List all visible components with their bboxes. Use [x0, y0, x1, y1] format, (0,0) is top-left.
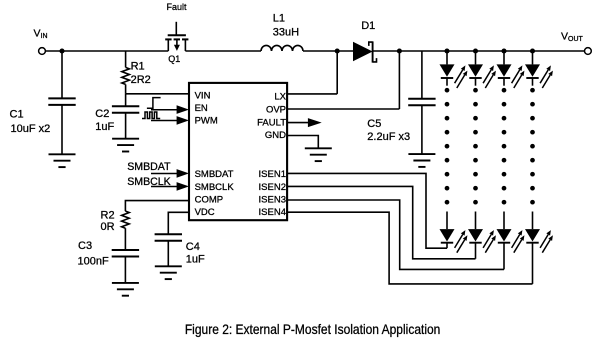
wire Q1 drain to L1 [185, 50, 261, 52]
wire L1 to D1 [303, 50, 353, 52]
wire LED2 anode lead [475, 51, 477, 64]
arrow FAULT output [308, 118, 322, 127]
LED D1a top string 1 [440, 64, 468, 88]
capacitor C1 [48, 98, 75, 105]
op-amp U1 IC box [189, 83, 287, 220]
wire OVP horizontal [287, 108, 399, 110]
wire LED4 bottom anode lead [532, 212, 534, 230]
svg-text:ISEN4: ISEN4 [259, 207, 286, 218]
capacitor C3 [112, 250, 139, 257]
wire LED3 bottom cathode lead [503, 243, 505, 270]
svg-text:2.2uF x3: 2.2uF x3 [367, 131, 410, 143]
node VOUT terminal [585, 48, 592, 55]
wire LED3 bottom anode lead [503, 212, 505, 230]
wire C1 to ground [61, 105, 63, 154]
svg-text:33uH: 33uH [273, 26, 299, 38]
wire LED1 anode lead [446, 51, 448, 64]
capacitor C4 [155, 234, 182, 241]
svg-text:10uF x2: 10uF x2 [11, 123, 51, 135]
wire LED1 bottom anode lead [446, 212, 448, 230]
svg-text:R1: R1 [131, 61, 145, 73]
LED D3b bottom string 3 [497, 229, 525, 253]
node LED string 1 continuation dots [445, 88, 450, 205]
wire C2 top lead [125, 94, 127, 107]
wire VIN [126, 93, 189, 95]
wire D1 to VOUT [373, 50, 585, 52]
svg-text:SMBCLK: SMBCLK [195, 182, 235, 193]
node VIN terminal [39, 48, 46, 55]
LED D4a top string 4 [525, 64, 553, 88]
svg-text:LX: LX [274, 92, 286, 103]
svg-text:0R: 0R [101, 221, 115, 233]
svg-text:FAULT: FAULT [257, 118, 286, 129]
LED D1b bottom string 1 [440, 229, 468, 253]
svg-text:C5: C5 [367, 118, 381, 130]
wire LED4 anode lead [532, 51, 534, 64]
wire LED4 cathode lead [532, 78, 534, 86]
wire LX vertical [336, 51, 338, 94]
wire R1 top lead [125, 51, 127, 67]
resistor R1 [122, 67, 130, 84]
arrow into PWM [177, 116, 189, 125]
wire C2 to ground [125, 113, 127, 139]
ground C1 [49, 154, 76, 167]
wire C4 to ground [167, 241, 169, 267]
svg-text:1uF: 1uF [186, 254, 205, 266]
junction OVP node [397, 48, 402, 53]
capacitor C5 [408, 99, 435, 106]
svg-text:EN: EN [195, 103, 208, 114]
wire OVP vertical [398, 51, 400, 109]
wire LED3 anode lead [503, 51, 505, 64]
wire COMP [125, 201, 189, 212]
svg-text:VIN: VIN [195, 91, 211, 102]
transistor Q1 [165, 22, 188, 51]
wire C1 lead [61, 51, 63, 98]
capacitor C2 [112, 106, 139, 113]
wire R2 to C3 [124, 228, 126, 250]
svg-text:OVP: OVP [266, 104, 286, 115]
wire C5 top lead [421, 51, 423, 99]
svg-text:C1: C1 [10, 109, 24, 121]
wire LED2 cathode lead [475, 78, 477, 86]
ground C2 [112, 139, 139, 152]
svg-text:PWM: PWM [195, 116, 218, 127]
resistor R2 [122, 211, 130, 228]
wire C3 to ground [124, 257, 126, 283]
PWM square waveform [142, 112, 160, 119]
svg-text:GND: GND [265, 130, 286, 141]
junction LED string 4 top [530, 48, 535, 53]
junction LED string 3 top [501, 48, 506, 53]
arrow into EN [177, 105, 189, 114]
svg-text:Fault: Fault [167, 2, 188, 12]
svg-text:D1: D1 [361, 20, 375, 32]
svg-text:ISEN1: ISEN1 [259, 169, 286, 180]
svg-text:Figure 2: External P-Mosfet Is: Figure 2: External P-Mosfet Isolation Ap… [185, 322, 441, 337]
wire ISEN2 [287, 186, 475, 258]
wire SMBCLK [151, 186, 178, 188]
wire VDC [168, 212, 189, 234]
svg-text:1uF: 1uF [95, 121, 114, 133]
junction LED string 1 top [444, 48, 449, 53]
wire ISEN4 [287, 212, 532, 284]
wire ISEN3 [287, 200, 504, 269]
wire LED2 bottom cathode lead [475, 243, 477, 259]
EN step waveform [147, 98, 161, 109]
LED D2b bottom string 2 [468, 229, 496, 253]
ground GND pin [305, 148, 332, 161]
LED D3a top string 3 [497, 64, 525, 88]
node LED string 3 continuation dots [502, 88, 507, 205]
wire LX horizontal [287, 93, 337, 95]
junction LX node [335, 48, 340, 53]
wire LED2 bottom anode lead [475, 212, 477, 230]
wire R1 bottom lead [125, 84, 127, 93]
LED D4b bottom string 4 [525, 229, 553, 253]
svg-text:2R2: 2R2 [131, 74, 151, 86]
inductor L1 [261, 45, 303, 51]
svg-text:ISEN2: ISEN2 [259, 182, 286, 193]
svg-text:L1: L1 [273, 13, 285, 25]
node LED string 4 continuation dots [530, 88, 535, 205]
ground C5 [408, 154, 435, 167]
svg-text:R2: R2 [101, 209, 115, 221]
svg-text:100nF: 100nF [78, 256, 109, 268]
node LED string 2 continuation dots [473, 88, 478, 205]
svg-text:C3: C3 [78, 240, 92, 252]
junction C1 [59, 48, 64, 53]
wire LED3 cathode lead [503, 78, 505, 86]
junction LED string 2 top [473, 48, 478, 53]
svg-text:Q1: Q1 [168, 54, 180, 64]
ground C3 [112, 283, 139, 296]
wire top rail left [45, 50, 168, 52]
svg-text:VDC: VDC [195, 207, 215, 218]
LED D2a top string 2 [468, 64, 496, 88]
diode D1 [353, 41, 377, 62]
wire LED1 cathode lead [446, 78, 448, 86]
wire FAULT [287, 122, 308, 124]
wire C5 to ground [421, 105, 423, 154]
wire LED1 bottom cathode lead [446, 243, 448, 249]
svg-text:ISEN3: ISEN3 [259, 194, 286, 205]
svg-text:SMBDAT: SMBDAT [127, 161, 171, 173]
wire EN [151, 109, 178, 111]
arrow into SMBDAT [177, 169, 189, 178]
wire GND [287, 136, 318, 149]
ground C4 [155, 266, 182, 279]
svg-text:SMBDAT: SMBDAT [195, 169, 234, 180]
wire ISEN1 [287, 173, 447, 248]
svg-text:C4: C4 [186, 241, 200, 253]
wire LED4 bottom cathode lead [532, 243, 534, 284]
svg-text:C2: C2 [95, 108, 109, 120]
arrow into SMBCLK [177, 182, 189, 191]
wire PWM [151, 120, 178, 122]
svg-text:COMP: COMP [195, 194, 224, 205]
wire SMBDAT [151, 173, 178, 175]
